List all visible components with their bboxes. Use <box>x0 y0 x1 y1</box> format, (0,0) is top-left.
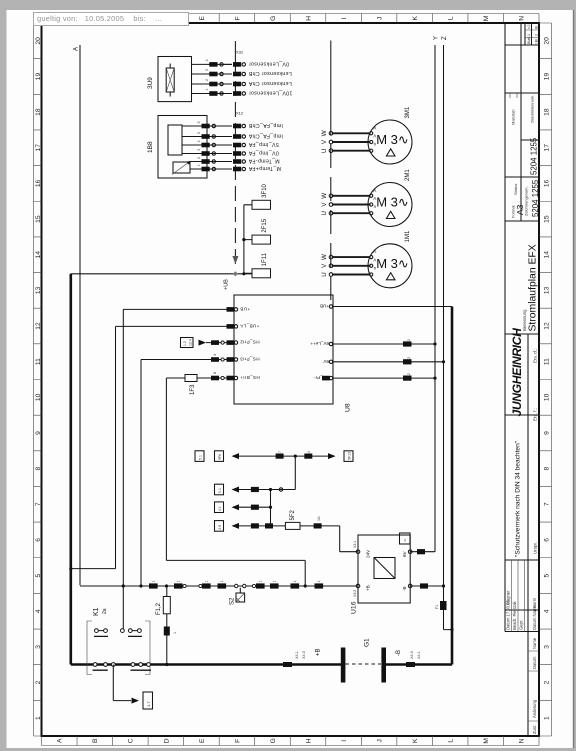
svg-text:M: M <box>483 738 490 744</box>
svg-text:6V: 6V <box>402 550 407 557</box>
svg-text:4: 4 <box>197 140 201 142</box>
svg-text:5F2: 5F2 <box>290 509 296 520</box>
svg-text:1: 1 <box>35 716 42 720</box>
svg-text:v.2: v.2 <box>527 24 531 29</box>
svg-text:8: 8 <box>543 466 550 470</box>
svg-text:Λ: Λ <box>373 249 376 254</box>
svg-text:A: A <box>57 738 64 743</box>
svg-text:+UB: +UB <box>320 304 329 309</box>
svg-text:5F13: 5F13 <box>348 452 352 460</box>
svg-text:I: I <box>341 740 348 742</box>
svg-text:M 3∿: M 3∿ <box>376 256 409 271</box>
svg-text:Λ: Λ <box>373 257 376 262</box>
svg-text:U16: U16 <box>351 601 358 614</box>
svg-text:Zeichnungsnum.: Zeichnungsnum. <box>524 186 529 216</box>
svg-text:5204 1255: 5204 1255 <box>531 179 540 217</box>
svg-text:K1: K1 <box>93 607 100 616</box>
svg-text:E: E <box>199 738 206 743</box>
svg-text:W: W <box>321 254 328 260</box>
svg-text:A: A <box>74 47 80 51</box>
svg-text:Stücklistennum.: Stücklistennum. <box>530 95 535 123</box>
svg-text:G: G <box>270 16 277 21</box>
svg-text:4.1: 4.1 <box>218 506 222 511</box>
svg-text:V: V <box>321 202 328 207</box>
svg-text:V: V <box>321 139 328 144</box>
svg-text:1: 1 <box>173 632 177 634</box>
svg-text:Lenksensor ChB: Lenksensor ChB <box>248 70 291 76</box>
svg-text:12.4: 12.4 <box>189 339 193 346</box>
svg-text:Blatt: Blatt <box>527 37 531 44</box>
svg-text:10: 10 <box>35 393 42 401</box>
svg-text:1: 1 <box>205 580 209 582</box>
svg-text:5.1: 5.1 <box>199 455 203 460</box>
svg-text:Status: Status <box>513 184 518 195</box>
svg-text:X4.1: X4.1 <box>295 651 299 659</box>
svg-text:Änderung: Änderung <box>532 699 537 718</box>
svg-text:3: 3 <box>35 645 42 649</box>
svg-text:1: 1 <box>317 580 321 582</box>
svg-text:14: 14 <box>35 251 42 259</box>
svg-text:Norm: Norm <box>532 597 537 608</box>
svg-text:Urspr.: Urspr. <box>533 542 538 554</box>
svg-text:M: M <box>483 15 490 21</box>
svg-text:1: 1 <box>220 580 224 582</box>
svg-text:4: 4 <box>307 451 311 453</box>
svg-text:X.1: X.1 <box>218 488 222 493</box>
svg-text:1F3: 1F3 <box>190 384 196 395</box>
svg-text:13: 13 <box>35 286 42 294</box>
svg-text:2: 2 <box>407 373 411 375</box>
svg-text:Λ: Λ <box>373 188 376 193</box>
svg-text:20: 20 <box>543 37 550 45</box>
svg-text:9: 9 <box>35 431 42 435</box>
svg-text:Wagner: Wagner <box>506 590 511 605</box>
svg-text:6V_Le++: 6V_Le++ <box>310 341 329 346</box>
svg-text:U1: U1 <box>317 516 321 521</box>
svg-text:18: 18 <box>35 108 42 116</box>
svg-text:7: 7 <box>35 502 42 506</box>
svg-text:V: V <box>321 263 328 268</box>
svg-text:6: 6 <box>543 538 550 542</box>
svg-text:2M1: 2M1 <box>405 169 411 181</box>
svg-text:W: W <box>321 130 328 136</box>
svg-text:5: 5 <box>35 573 42 577</box>
svg-text:HS_Pri3: HS_Pri3 <box>240 357 260 362</box>
svg-text:16: 16 <box>543 179 550 187</box>
svg-text:Stromlaufplan EFX: Stromlaufplan EFX <box>528 244 539 331</box>
svg-text:1.7: 1.7 <box>146 701 151 707</box>
svg-text:E: E <box>199 16 206 21</box>
svg-text:Zust.: Zust. <box>532 725 537 734</box>
svg-text:15: 15 <box>543 215 550 223</box>
svg-text:18: 18 <box>543 108 550 116</box>
svg-text:9F6: 9F6 <box>218 454 222 460</box>
svg-text:M 3∿: M 3∿ <box>376 195 409 210</box>
svg-text:H: H <box>305 16 312 21</box>
svg-text:S2: S2 <box>230 597 236 605</box>
svg-text:24V: 24V <box>366 549 371 558</box>
svg-text:K: K <box>412 738 419 743</box>
svg-text:Imp_FA_ChB: Imp_FA_ChB <box>248 122 283 128</box>
svg-text:D: D <box>163 738 170 743</box>
svg-text:X3:1: X3:1 <box>353 541 357 548</box>
svg-text:1: 1 <box>205 89 209 91</box>
svg-text:4: 4 <box>543 609 550 613</box>
svg-text:4: 4 <box>35 609 42 613</box>
svg-text:J: J <box>376 739 383 742</box>
svg-text:U: U <box>321 148 328 152</box>
svg-text:X4.1: X4.1 <box>417 651 421 659</box>
svg-text:1: 1 <box>177 580 181 582</box>
svg-text:l.Bl.: l.Bl. <box>535 38 539 44</box>
svg-text:X4.0: X4.0 <box>410 651 414 659</box>
svg-text:1F11: 1F11 <box>262 252 268 266</box>
svg-text:3M1: 3M1 <box>405 106 411 118</box>
svg-text:Λ: Λ <box>373 134 376 139</box>
svg-text:2: 2 <box>205 79 209 81</box>
svg-text:M_Temp-FA: M_Temp-FA <box>248 158 279 164</box>
svg-text:JUNGHEINRICH: JUNGHEINRICH <box>510 327 524 417</box>
svg-text:15: 15 <box>35 215 42 223</box>
svg-text:N: N <box>519 738 526 743</box>
svg-text:3U9: 3U9 <box>147 77 154 89</box>
svg-text:14: 14 <box>543 251 550 259</box>
svg-text:K: K <box>412 16 419 21</box>
svg-text:F1,2: F1,2 <box>156 602 162 615</box>
svg-text:"Schutzvermerk nach DIN 34 bea: "Schutzvermerk nach DIN 34 beachten" <box>515 440 522 557</box>
svg-text:8: 8 <box>35 466 42 470</box>
svg-text:Gepr.: Gepr. <box>519 620 524 630</box>
svg-text:Lenksensor ChA: Lenksensor ChA <box>248 80 291 86</box>
svg-text:B: B <box>92 738 99 743</box>
svg-text:HS_Pri2: HS_Pri2 <box>240 340 260 345</box>
svg-text:1B8: 1B8 <box>147 141 154 153</box>
svg-text:L: L <box>448 739 455 743</box>
svg-text:F1: F1 <box>435 605 439 609</box>
svg-text:3: 3 <box>205 69 209 71</box>
svg-text:12: 12 <box>35 322 42 330</box>
svg-text:L: L <box>448 16 455 20</box>
svg-text:5: 5 <box>197 132 201 134</box>
svg-text:5: 5 <box>543 573 550 577</box>
svg-text:2: 2 <box>197 157 201 159</box>
svg-text:12: 12 <box>543 322 550 330</box>
svg-text:17: 17 <box>543 144 550 152</box>
svg-text:Datum: Datum <box>532 656 537 669</box>
svg-text:J: J <box>376 17 383 20</box>
svg-text:M 3∿: M 3∿ <box>376 132 409 147</box>
svg-text:5V_Imp_FA: 5V_Imp_FA <box>248 141 278 147</box>
svg-text:Maßstab: Maßstab <box>511 109 516 125</box>
svg-text:Name: Name <box>532 637 537 649</box>
svg-text:C: C <box>128 738 135 743</box>
svg-text:X4.0: X4.0 <box>302 651 306 659</box>
svg-text:0V_Lenksensor: 0V_Lenksensor <box>249 61 290 67</box>
svg-text:Z: Z <box>442 36 448 40</box>
svg-text:11: 11 <box>543 358 550 365</box>
svg-text:Bearb. Pietrzak: Bearb. Pietrzak <box>512 600 517 630</box>
svg-text:U: U <box>321 211 328 215</box>
svg-text:1: 1 <box>197 164 201 166</box>
svg-text:10V_Lenksensor: 10V_Lenksensor <box>249 90 293 96</box>
svg-text:Λ: Λ <box>373 125 376 130</box>
svg-text:8: 8 <box>213 372 217 374</box>
svg-text:10: 10 <box>543 393 550 401</box>
svg-text:19: 19 <box>543 72 550 80</box>
svg-text:9: 9 <box>543 431 550 435</box>
svg-text:X31: X31 <box>236 50 244 55</box>
svg-text:3: 3 <box>543 645 550 649</box>
svg-text:M_Temp+FA: M_Temp+FA <box>248 165 281 171</box>
svg-text:2F15: 2F15 <box>262 218 268 232</box>
svg-text:F: F <box>234 739 241 743</box>
svg-text:+UB: +UB <box>240 307 250 312</box>
svg-text:7: 7 <box>278 451 282 453</box>
svg-text:3: 3 <box>197 149 201 151</box>
svg-text:1: 1 <box>259 580 263 582</box>
svg-text:HS_Pr-: HS_Pr- <box>313 375 329 380</box>
svg-text:U8: U8 <box>345 403 352 412</box>
svg-text:2: 2 <box>407 357 411 359</box>
svg-text:2a: 2a <box>102 608 108 614</box>
svg-text:0V_Imp_FA: 0V_Imp_FA <box>248 150 278 156</box>
svg-text:1M1: 1M1 <box>405 230 411 242</box>
svg-text:I: I <box>341 17 348 19</box>
svg-text:6V: 6V <box>322 359 329 364</box>
svg-text:2: 2 <box>535 34 539 36</box>
svg-text:H: H <box>305 738 312 743</box>
svg-text:2: 2 <box>543 680 550 684</box>
svg-text:5204 1255: 5204 1255 <box>530 137 539 175</box>
svg-text:6: 6 <box>197 121 201 123</box>
svg-text:1: 1 <box>293 580 297 582</box>
svg-text:19: 19 <box>35 72 42 80</box>
svg-text:HS_Bri+: HS_Bri+ <box>240 375 260 380</box>
svg-text:+B: +B <box>366 585 371 591</box>
svg-text:2.6: 2.6 <box>218 525 222 530</box>
svg-text:U: U <box>321 272 328 276</box>
svg-text:+UB: +UB <box>224 279 230 290</box>
svg-text:16: 16 <box>35 179 42 187</box>
svg-text:W: W <box>321 193 328 199</box>
svg-text:Λ: Λ <box>373 196 376 201</box>
svg-text:1: 1 <box>152 580 156 582</box>
svg-text:20: 20 <box>35 37 42 45</box>
svg-text:Ers. f.:: Ers. f.: <box>533 408 538 421</box>
svg-text:Datum Name: Datum Name <box>532 605 537 630</box>
svg-text:1.2: 1.2 <box>183 341 187 346</box>
svg-text:X3:2: X3:2 <box>353 590 357 597</box>
svg-text:+UB_LA: +UB_LA <box>239 324 259 329</box>
svg-text:Y: Y <box>434 36 440 40</box>
svg-text:17: 17 <box>35 144 42 152</box>
svg-text:S1: S1 <box>403 538 407 542</box>
svg-text:6: 6 <box>35 538 42 542</box>
svg-text:G1: G1 <box>364 638 371 647</box>
svg-text:G: G <box>270 738 277 743</box>
svg-text:Bl.: Bl. <box>535 25 539 29</box>
svg-text:1: 1 <box>527 34 531 36</box>
svg-text:N: N <box>519 16 526 21</box>
svg-text:Ers. d.:: Ers. d.: <box>533 349 538 363</box>
svg-text:Imp_FA_ChA: Imp_FA_ChA <box>248 133 283 139</box>
svg-text:1: 1 <box>273 580 277 582</box>
svg-text:-B: -B <box>402 586 407 591</box>
svg-text:X12: X12 <box>236 111 244 116</box>
svg-text:3: 3 <box>213 354 217 356</box>
svg-text:2: 2 <box>35 680 42 684</box>
svg-text:11: 11 <box>35 358 42 365</box>
svg-text:13: 13 <box>543 286 550 294</box>
svg-text:1: 1 <box>543 716 550 720</box>
svg-text:-B: -B <box>396 650 402 656</box>
svg-text:4: 4 <box>205 59 209 61</box>
svg-text:3F10: 3F10 <box>262 183 268 197</box>
svg-text:7: 7 <box>543 502 550 506</box>
svg-text:+B: +B <box>316 648 322 656</box>
svg-text:2: 2 <box>407 339 411 341</box>
svg-text:F: F <box>234 16 241 20</box>
svg-text:Benennung: Benennung <box>522 309 527 331</box>
